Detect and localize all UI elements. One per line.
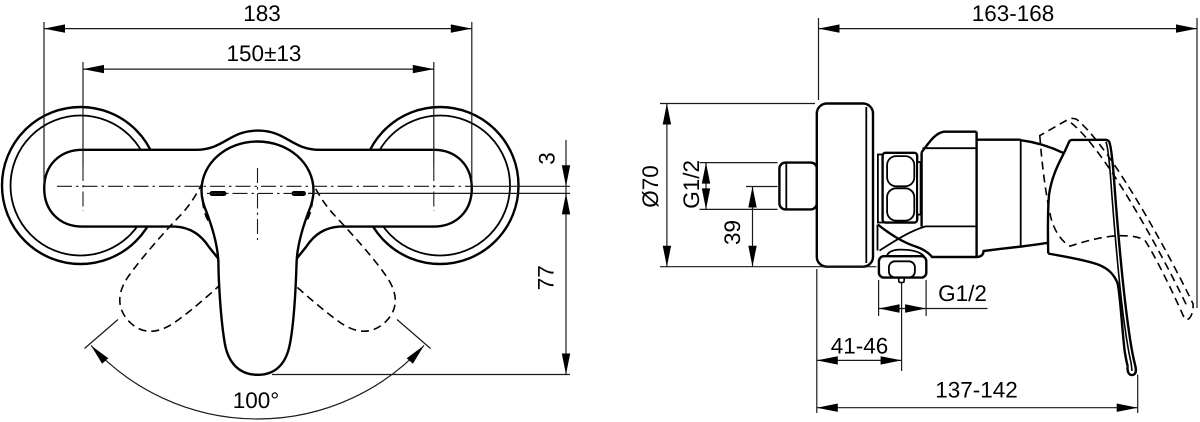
dim 150±13 extension right [433, 62, 435, 166]
blade edge double line [1106, 142, 1132, 371]
handle swing dashed right (rotated -50) [181, 117, 425, 361]
hex nut lower facet [887, 188, 914, 220]
dim 163-168 arrow left [819, 24, 840, 32]
dim G1/2 inlet extension bottom [700, 208, 778, 210]
dim 163-168 arrow right [1176, 24, 1197, 32]
svg-text:3: 3 [535, 152, 560, 165]
outlet bend outer sweep + body bottom edge [878, 225, 977, 258]
washer right of hex nut [917, 162, 920, 215]
svg-text:137-142: 137-142 [935, 378, 1018, 403]
body block top crease [923, 147, 977, 149]
svg-text:G1/2: G1/2 [938, 281, 987, 306]
centerline flange right vertical [433, 166, 435, 211]
dim 163-168 extension left [818, 18, 820, 100]
hex nut upper facet [887, 156, 914, 186]
outlet nipple [899, 278, 905, 283]
dim G1/2 inlet arrow bottom [702, 188, 710, 209]
dim 3 extension upper [473, 185, 570, 187]
dim 137-142 line [817, 407, 1138, 409]
centerline flange left vertical [82, 166, 84, 211]
body bar [44, 131, 472, 259]
outlet nut [879, 256, 926, 277]
dim 3/77 vertical line [565, 140, 567, 375]
dim 41-46 arrow left [817, 356, 838, 364]
outlet collar [887, 250, 924, 257]
centerline horizontal main [57, 185, 473, 187]
swing arc radial line right [397, 320, 431, 349]
outlet nut facet [889, 261, 915, 277]
flange left inner circle [11, 116, 151, 256]
dim G1/2 outlet extension right [925, 280, 927, 316]
dim Ø70 arrow bottom [663, 246, 671, 267]
svg-text:77: 77 [534, 265, 559, 290]
dim G1/2 outlet extension left [878, 280, 880, 316]
dim G1/2 outlet arrow left [879, 304, 900, 312]
flange right inner circle [370, 116, 510, 256]
dim Ø70 extension top [660, 103, 815, 105]
dim 41-46 extension left (wall line) [816, 269, 818, 413]
cylinder bottom edge [977, 243, 1047, 257]
dim Ø70 extension bottom (shared with 39) [660, 266, 877, 268]
handle dome top arc [1021, 140, 1064, 153]
dim G1/2 outlet line [879, 308, 988, 310]
dim 163-168 extension right [1196, 18, 1198, 308]
wall flange disc face line [865, 107, 867, 263]
inlet pipe chamfer line [785, 164, 787, 209]
dim 77 arrow down [562, 354, 570, 375]
dim 137-142 arrow left [817, 404, 838, 412]
body block bottom crease [880, 226, 977, 250]
index tick left [210, 191, 227, 196]
lever underside sweep [1048, 254, 1128, 367]
dim 150±13 extension left [82, 62, 84, 166]
dim 137-142 arrow right [1117, 404, 1138, 412]
dim G1/2 inlet extension top [700, 162, 778, 164]
dim G1/2 inlet line [705, 163, 707, 210]
dim 183 extension right [471, 22, 473, 185]
body block left edge [920, 152, 922, 226]
lever dashed open position [1040, 118, 1193, 319]
dim 183 line [44, 28, 472, 30]
dim 3 arrow up [562, 193, 570, 214]
flange left outer circle [2, 107, 159, 264]
washer left of hex nut [878, 155, 883, 223]
dim 77 extension bottom (handle tip) [272, 374, 570, 376]
swing arc arrow left [91, 346, 108, 364]
wall flange disc Ø70 [817, 104, 873, 267]
dim 183 arrow right [451, 24, 472, 32]
svg-text:163-168: 163-168 [972, 1, 1055, 26]
swing arc radial line left [85, 320, 119, 349]
dim G1/2 outlet arrow right [905, 304, 926, 312]
body block right edge [975, 132, 977, 258]
dim 39 arrow bottom [748, 246, 756, 267]
swing arc arrow right [407, 346, 424, 364]
dim Ø70 arrow top [663, 104, 671, 125]
svg-text:Ø70: Ø70 [638, 165, 663, 208]
dim 163-168 line [819, 28, 1198, 30]
swing arc 100° [91, 346, 424, 419]
lever dashed double line [1071, 123, 1188, 308]
bend left vertical [877, 225, 879, 251]
svg-text:41-46: 41-46 [831, 334, 889, 359]
dim 41-46 arrow right [881, 356, 902, 364]
dim 39 extension top [746, 186, 778, 188]
cartridge cylinder top edge [977, 138, 1021, 140]
dim 39 line [752, 187, 754, 267]
hex union nut outline [883, 153, 918, 223]
flange right outer circle [362, 107, 519, 264]
centerline horizontal lower [207, 192, 311, 194]
dim Ø70 line [666, 104, 668, 267]
dim 150±13 line [83, 68, 434, 70]
dim 3 arrow down [562, 165, 570, 186]
dim 150±13 arrow left [83, 65, 104, 73]
svg-text:39: 39 [720, 220, 745, 245]
svg-text:G1/2: G1/2 [679, 160, 704, 209]
index tick right [292, 191, 307, 196]
cartridge cylinder divider [1020, 140, 1022, 247]
dim 41-46 extension right (outlet center) [901, 283, 903, 371]
dim 137-142 extension right [1137, 375, 1139, 414]
dim 41-46 line [817, 359, 902, 361]
handle + cartridge dome (neutral) [202, 142, 314, 375]
svg-text:183: 183 [243, 1, 281, 26]
svg-text:150±13: 150±13 [227, 41, 302, 66]
dim 183 extension left [43, 22, 45, 185]
handle swing dashed left (rotated +50) [90, 117, 426, 361]
lever top and blade right edge with tip [1064, 140, 1136, 375]
dim 150±13 arrow right [413, 65, 434, 73]
handle dome flank [1048, 153, 1064, 253]
body block chamfered top-left [922, 132, 977, 153]
inlet pipe G1/2 [779, 163, 816, 210]
centerline head vertical [257, 168, 259, 240]
dim 183 arrow left [44, 24, 65, 32]
dim G1/2 inlet arrow top [702, 163, 710, 184]
dim 3 extension lower [473, 192, 570, 194]
dim 39 arrow top [748, 187, 756, 208]
svg-text:100°: 100° [233, 388, 280, 413]
